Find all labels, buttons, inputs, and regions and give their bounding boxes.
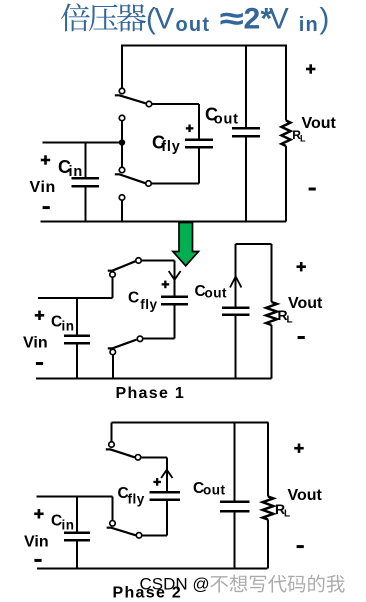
svg-text:fly: fly <box>128 492 145 507</box>
svg-text:Vin: Vin <box>23 335 48 352</box>
svg-text:Phase 2: Phase 2 <box>113 585 183 602</box>
svg-text:Phase 1: Phase 1 <box>116 385 186 402</box>
svg-text:≈: ≈ <box>220 3 244 36</box>
svg-text:in: in <box>69 164 84 180</box>
svg-text:out: out <box>214 111 239 127</box>
svg-text:L: L <box>287 315 293 326</box>
svg-text:2: 2 <box>244 3 261 36</box>
svg-text:in: in <box>299 14 319 36</box>
svg-text:out: out <box>176 14 211 36</box>
svg-text:out: out <box>203 483 226 498</box>
svg-text:L: L <box>284 509 290 520</box>
svg-text:V: V <box>269 3 289 36</box>
svg-text:Vout: Vout <box>302 115 337 132</box>
svg-text:Vout: Vout <box>288 487 323 504</box>
svg-text:in: in <box>62 319 75 334</box>
svg-text:out: out <box>205 286 228 301</box>
svg-text:): ) <box>320 3 330 36</box>
svg-text:Vin: Vin <box>24 534 49 551</box>
svg-text:fly: fly <box>140 297 157 312</box>
svg-text:Vout: Vout <box>288 295 323 312</box>
svg-text:C: C <box>128 290 139 307</box>
svg-text:L: L <box>300 133 306 143</box>
svg-text:in: in <box>62 518 75 533</box>
svg-text:Vin: Vin <box>30 179 56 196</box>
svg-text:V: V <box>155 3 175 36</box>
svg-text:fly: fly <box>161 139 180 155</box>
